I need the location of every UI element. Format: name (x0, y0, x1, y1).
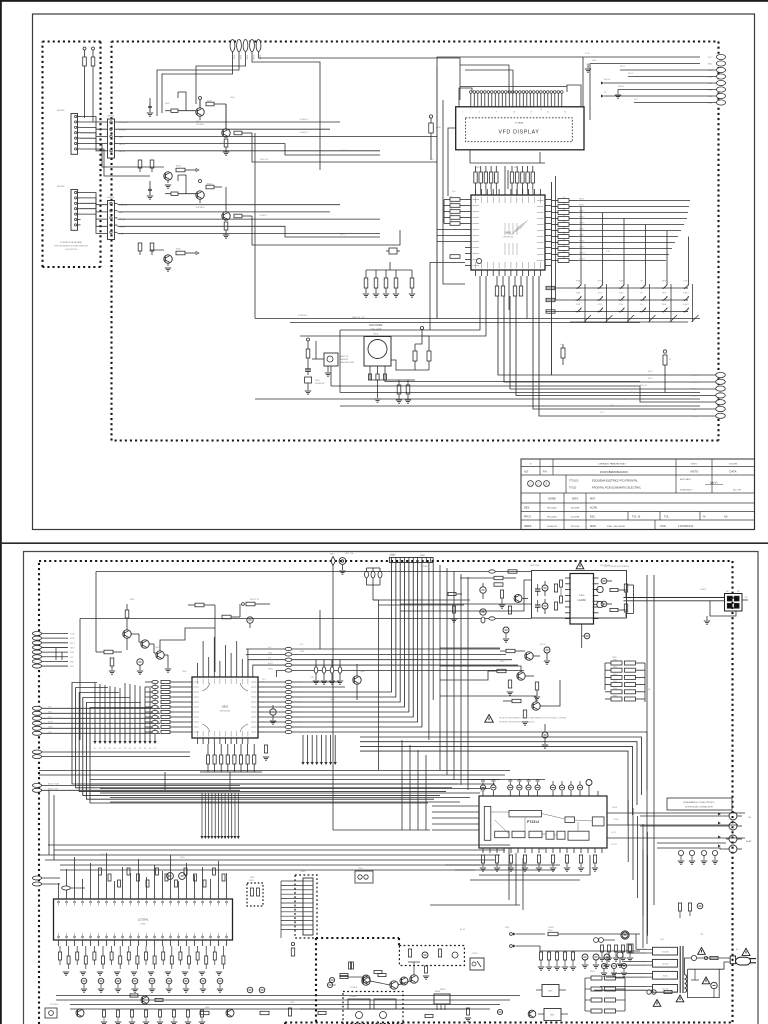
wire U801 top 10 (247, 649, 249, 671)
wire U804 top 10 (130, 873, 132, 893)
U803 inner block e (557, 831, 565, 839)
transistor Q814 (400, 977, 408, 985)
U801 corner swoosh BL (202, 724, 210, 732)
regulator IC804 (542, 985, 559, 997)
U801 bottom pin 5 (219, 738, 221, 744)
svg-text:32: 32 (154, 944, 156, 946)
connector pad CN606-7 (716, 413, 726, 418)
svg-text:DCRCB2RDMACRO: DCRCB2RDMACRO (600, 470, 629, 474)
wire CN803-6 run (42, 732, 160, 734)
part bottom row 3 (145, 1010, 148, 1017)
capacitor C897 (200, 978, 206, 984)
wire hbus 7 (110, 797, 470, 799)
svg-text:G1: G1 (109, 748, 111, 750)
capacitor C901 (593, 954, 599, 960)
key switch SW6 (683, 287, 685, 289)
wire stack row 2 right (292, 659, 512, 661)
wire U801 top 1 (197, 663, 199, 671)
capacitor C690 (305, 368, 311, 370)
terminal arrow B3 (211, 793, 213, 836)
resistor R880 (59, 952, 62, 960)
U803 top pin 12 (597, 791, 599, 796)
wire belt 5 (522, 296, 716, 402)
U801 bottom pin 7 (230, 738, 232, 744)
svg-text:SEG11: SEG11 (579, 259, 586, 261)
capacitor C834 (503, 627, 509, 633)
resistor R837 (253, 755, 256, 764)
svg-text:8: 8 (114, 896, 115, 898)
svg-text:GND: GND (708, 64, 713, 66)
capacitor C841 (491, 785, 496, 790)
transformer primary top lead (685, 958, 692, 975)
wire stack row 2 left (248, 660, 285, 677)
wire U601 left pin7 run (437, 235, 465, 237)
U801 right pin 7 (258, 711, 264, 713)
diode D801 (547, 952, 550, 960)
wire CN802-2 (42, 637, 68, 639)
resistor R819 (152, 725, 158, 728)
capacitor C883 (127, 868, 130, 875)
part bottom row 5 (173, 1010, 176, 1017)
svg-text:CN603: CN603 (107, 116, 115, 118)
svg-text:9: 9 (122, 896, 123, 898)
wire q807 out (548, 680, 560, 706)
wire CN803-3 run (42, 717, 160, 719)
chip U601 inner pin labels left (473, 199, 480, 201)
U802 left pin 4 (565, 594, 570, 596)
resistor R881 (67, 956, 70, 964)
U601 bottom pin 5 (498, 270, 500, 276)
transistor Q802 (141, 640, 149, 648)
jumper pad J822 (285, 690, 292, 693)
connector pad CN808-2 (32, 882, 41, 886)
svg-text:26: 26 (202, 944, 204, 946)
U601 right pin 4 (545, 217, 551, 219)
svg-text:LA4282: LA4282 (578, 599, 587, 602)
resistor R801 (195, 603, 204, 607)
U803 inner block vert (484, 807, 491, 841)
key switch SW13 (576, 311, 578, 313)
resistor R885 (102, 956, 105, 964)
VFD pin 16 (522, 94, 524, 107)
wire u801 row 8 (302, 563, 413, 718)
capacitor C831 (542, 732, 548, 738)
U801 right pin 2 (258, 686, 264, 688)
title block row line y466.5 (521, 466, 755, 468)
wire network left drops (604, 663, 606, 690)
connector pad CN605-7 (716, 93, 725, 98)
VFD pin 23 (547, 94, 549, 107)
svg-text:REMOTE_OUT: REMOTE_OUT (352, 317, 366, 319)
snubber loop (688, 969, 720, 997)
svg-text:PC801: PC801 (472, 953, 478, 955)
warning tri T4 (653, 1000, 661, 1007)
key switch SW15 (619, 311, 621, 313)
regulator IC803 (434, 994, 450, 1004)
U601 left pin 7 (465, 235, 471, 237)
wire stack row 0 left (246, 648, 285, 650)
capacitor C867 (579, 855, 582, 863)
svg-text:16: 16 (178, 896, 180, 898)
U601 left pin 1 (465, 199, 471, 201)
U804 top pin 21 (218, 893, 220, 899)
resistor R671 (516, 172, 519, 183)
capacitor C845 (535, 785, 540, 790)
svg-text:BUSY: BUSY (48, 721, 54, 723)
wire left col drops (44, 860, 46, 1024)
wire cn802 runs (55, 648, 57, 661)
key switch SW4 (640, 287, 642, 289)
svg-text:Q810: Q810 (130, 989, 135, 991)
connector pad CN805-1 (32, 783, 41, 787)
svg-text:01/10/96: 01/10/96 (571, 517, 580, 519)
terminal arrow B2 (208, 793, 210, 836)
resistor R623 (450, 216, 460, 220)
title vsep r7 (654, 520, 656, 530)
wire enc left drop (339, 330, 341, 393)
wire plug (697, 957, 730, 959)
resistor R859 (512, 699, 521, 702)
terminal arrow B1 (204, 793, 206, 836)
svg-text:KEYBD: KEYBD (57, 110, 65, 112)
U801 left pin 10 (186, 726, 192, 728)
transformer primary (685, 975, 687, 980)
wire enc out 1 (370, 379, 415, 381)
key switch SW2 (597, 287, 599, 289)
resistor R8110 (152, 730, 158, 733)
svg-text:SEG10: SEG10 (579, 253, 586, 255)
wire u804 bottom bus4 (70, 1008, 490, 1010)
svg-text:P-ON: P-ON (70, 634, 75, 636)
wire key row 7 (81, 149, 151, 176)
transformer T802 core (679, 946, 681, 993)
U801 top pin 3 (208, 671, 210, 677)
wire U804 top 13 (154, 865, 156, 893)
wire stack row 1 left (246, 653, 285, 655)
U601 top pin 11 (534, 189, 536, 195)
capacitor C826 (480, 587, 486, 593)
wire CN802-3 (42, 642, 68, 644)
ground conn (706, 616, 708, 620)
U601 top pin 5 (498, 189, 500, 195)
U803 bottom pin 2 (489, 848, 491, 853)
capacitor C8812 (213, 868, 216, 875)
capacitor C891 (98, 978, 104, 984)
wire U801 top 7 (230, 653, 232, 671)
U803 inner block d (546, 831, 554, 839)
svg-text:39: 39 (98, 944, 100, 946)
svg-text:A3: A3 (724, 515, 728, 519)
U804 bottom pin 4 (82, 940, 84, 946)
ground g6 (165, 971, 171, 973)
capacitor C818 (338, 667, 342, 673)
wire hbus 4 (90, 783, 495, 785)
wire right pad 1 (583, 56, 700, 58)
resistor R8818 (213, 952, 216, 960)
wire nestA h2 (378, 604, 464, 606)
resistor R834 (233, 755, 236, 764)
svg-text:CH_D: CH_D (119, 151, 125, 153)
U804 bottom pin 5 (90, 940, 92, 946)
svg-text:KEY_2: KEY_2 (340, 234, 346, 236)
wire power h1 (460, 899, 640, 901)
wire vbus 3 (453, 571, 455, 780)
key switch SW16 (640, 311, 642, 313)
terminal arrow B9 (231, 793, 233, 836)
svg-text:HS0038/TK1836: HS0038/TK1836 (340, 362, 354, 364)
svg-text:ENC_B: ENC_B (630, 392, 637, 394)
wire U804 top 4 (82, 879, 84, 893)
AC input arrow 2 (513, 945, 516, 948)
U601 right pin 6 (545, 229, 551, 231)
U803 top pin 10 (579, 791, 581, 796)
svg-text:PROJ.: PROJ. (524, 516, 532, 519)
capacitor C624 (410, 278, 414, 288)
wire u804 bottom bus3 (70, 1004, 500, 1006)
U804 bottom pin 13 (154, 940, 156, 946)
svg-text:ENC_B: ENC_B (691, 395, 698, 397)
svg-text:R861: R861 (613, 667, 617, 669)
wire amp out bottom (624, 600, 725, 602)
encoder volume body (364, 337, 391, 367)
svg-text:VCC: VCC (430, 159, 435, 161)
capacitor C828 (544, 647, 550, 653)
capacitor C620 (364, 278, 368, 288)
wire conn stub (710, 601, 736, 616)
connector pad CN606-5 (716, 400, 726, 405)
U801 bottom pin 9 (241, 738, 243, 744)
wire key col v 5 (670, 284, 672, 322)
U804 top pin 18 (194, 893, 196, 899)
transistor Q808 (514, 594, 522, 602)
U601 bottom pin 4 (492, 270, 494, 276)
capacitor C898 (217, 978, 223, 984)
page 2 frame (24, 552, 759, 1024)
transistor Q805 (525, 652, 533, 660)
U601 top pin 9 (522, 189, 524, 195)
svg-text:THIS KEYBOARD IS USED REMOTE: THIS KEYBOARD IS USED REMOTE (54, 245, 89, 248)
wire amp out top (624, 597, 725, 599)
capacitor C902 (604, 954, 610, 960)
resistor R805 (110, 658, 114, 666)
capacitor C811 (264, 745, 267, 753)
wire sec drop b (629, 951, 631, 953)
crystal box X801 (247, 883, 263, 906)
wire bundle pass 1 (401, 740, 403, 830)
U803 bottom pin 17 (594, 848, 596, 853)
wire power h3 (455, 869, 555, 871)
ground g1 (80, 971, 86, 973)
wire belt 3 (510, 296, 716, 389)
wire enc row b (307, 392, 309, 394)
U803 top pin 2 (492, 791, 494, 796)
svg-text:P1: P1 (99, 748, 101, 750)
resistor R854 (494, 576, 503, 579)
wire CN807 pin 1 (281, 880, 303, 882)
resistor R6410 (558, 259, 569, 263)
resistor R894 (340, 973, 348, 976)
test point TP2 (99, 684, 101, 741)
resistor R833 (226, 755, 229, 764)
key switch SW3 (619, 287, 621, 289)
resistor R8xx (448, 592, 456, 595)
capacitor C829 (508, 680, 511, 688)
wire amp input long (96, 571, 532, 573)
svg-text:CN807: CN807 (300, 871, 306, 873)
resistor R8xz (508, 606, 511, 614)
resistor R804 (104, 650, 113, 654)
svg-text:POWER: POWER (350, 987, 358, 989)
capacitor C825 (624, 604, 627, 612)
wire pad3 run (196, 56, 246, 104)
VFD pin 12 (508, 94, 510, 107)
transistor Q810b (597, 601, 603, 607)
title vsep r1 (539, 459, 541, 475)
wire bus sel (118, 135, 438, 137)
svg-text:P-ON: P-ON (585, 53, 590, 55)
opto pc801 (470, 958, 484, 970)
encoder pin feet (368, 374, 371, 380)
svg-text:R862: R862 (613, 674, 617, 676)
wire chip top fan 1 (480, 189, 482, 195)
resistor R642 (558, 211, 569, 215)
wire right pad 8 (634, 102, 716, 104)
svg-text:S4: S4 (139, 748, 141, 750)
VFD pin 7 (491, 94, 493, 107)
wire stack up (319, 610, 321, 649)
U601 bottom pin 6 (504, 270, 506, 276)
jumper pad J843 (285, 663, 292, 666)
wire hbus 8 (110, 801, 460, 803)
svg-text:MQ. GHI: MQ. GHI (733, 490, 741, 492)
wire cluster out2 (214, 605, 216, 672)
svg-text:SEG4: SEG4 (579, 217, 585, 219)
connector pad CN802-5 (32, 650, 41, 654)
title block row line y520 (521, 519, 755, 521)
U601 bottom pin 11 (534, 270, 536, 276)
wire key row 2 (81, 122, 108, 129)
svg-text:FRONTAL PCB SCHEMATIC ELECTRIC: FRONTAL PCB SCHEMATIC ELECTRIC (592, 486, 641, 490)
svg-text:INCENDIO DEVEM SER SUBSTITUIDO: INCENDIO DEVEM SER SUBSTITUIDOS (499, 722, 535, 724)
capacitor C8813 (222, 874, 225, 881)
resistor R664 (495, 172, 498, 183)
wire staircase 2 (76, 688, 452, 788)
test point TP6 (119, 688, 121, 741)
U601 bottom pin 8 (516, 270, 518, 276)
U801 right pin 1 (258, 681, 264, 683)
svg-text:KEY_IN: KEY_IN (340, 150, 347, 152)
svg-text:AC IN: AC IN (460, 928, 466, 931)
wire network right drop (644, 663, 646, 702)
wire chip top fan 4 (495, 189, 497, 195)
wire left drop 1 (254, 133, 256, 319)
resistor R855 (494, 583, 503, 586)
wire belt 7 (539, 276, 716, 416)
svg-text:ENCODER: ENCODER (370, 323, 383, 327)
resistor R8811 (153, 956, 156, 964)
U801 right pin 8 (258, 716, 264, 718)
capacitor C610 (429, 115, 432, 118)
wire key col v 6 (692, 284, 694, 322)
wire U804 top 11 (138, 859, 140, 893)
jumper pad J823 (285, 695, 292, 698)
resistor R910 (318, 1011, 326, 1014)
terminal arrow B8 (227, 793, 229, 836)
wire bus2 c (118, 218, 381, 220)
jumper pad J8210 (285, 730, 292, 733)
U804 bottom pin 2 (66, 940, 68, 946)
U801 bottom pin 4 (213, 738, 215, 744)
connector pad CN606-2 (716, 379, 726, 384)
svg-text:ENC-A: ENC-A (604, 78, 611, 81)
svg-text:37: 37 (114, 944, 116, 946)
connector pad CN804-2 (32, 755, 41, 759)
test point TP5 (114, 687, 116, 741)
svg-text:SEG2: SEG2 (579, 205, 585, 207)
wire U601 left pin6 run (437, 229, 465, 231)
wire key row 4 (81, 133, 108, 144)
U801 inner ticks bottom (197, 731, 199, 737)
wire CN804-2 run (42, 756, 190, 758)
wire below chip bus (200, 771, 262, 773)
svg-text:IC802: IC802 (140, 924, 146, 926)
VFD pin 9 (498, 94, 500, 107)
connector pad P1-1 (230, 40, 235, 52)
capacitor C833 (560, 580, 563, 587)
svg-text:LC75341: LC75341 (138, 918, 149, 922)
wire chip top fan b0 (511, 189, 513, 195)
jumper pad J827 (285, 715, 292, 718)
wire xfmr feed b (646, 855, 648, 936)
connector pad CN803-2 (32, 711, 41, 715)
U803 bottom pin 13 (566, 848, 568, 853)
capacitor C836 plates (535, 604, 541, 606)
dashed box standby (399, 946, 464, 966)
wire U801 top 8 (236, 641, 238, 671)
svg-text:X801: X801 (250, 877, 254, 879)
wire bundle pass 3 (417, 750, 419, 830)
U804 bottom pin 7 (106, 940, 108, 946)
U804 inner ticks bottom (58, 933, 60, 939)
U803 bottom pin 3 (496, 848, 498, 853)
wire u801 row 10 (302, 563, 422, 728)
wire vfd top drop 2 (512, 70, 514, 94)
VFD pin 26 (557, 94, 559, 107)
title block row line y475 (521, 474, 755, 476)
U801 top pin 2 (202, 671, 204, 677)
wire r806 link (239, 604, 241, 617)
resistor R602 (91, 57, 95, 66)
transformer secondary 3 (653, 971, 678, 979)
wire mid vertical a (373, 600, 378, 690)
transformer secondary 2 (653, 959, 678, 967)
resistor R832 (220, 755, 223, 764)
connector pad CN605-5 (716, 80, 725, 85)
resistor R900 (591, 976, 602, 980)
svg-text:3: 3 (74, 896, 75, 898)
svg-text:X-IN: X-IN (310, 677, 314, 679)
resistor R640 (558, 199, 569, 203)
resistor R911 (425, 1014, 433, 1017)
VFD left riser (459, 88, 472, 107)
svg-text:P10: P10 (262, 679, 265, 681)
wire bus ch_d (118, 150, 381, 152)
svg-text:R801: R801 (130, 599, 135, 601)
wire amp in 1 (460, 577, 494, 579)
transistor Q811 (226, 1009, 234, 1017)
svg-text:27: 27 (194, 944, 196, 946)
U804 top pin 20 (210, 893, 212, 899)
